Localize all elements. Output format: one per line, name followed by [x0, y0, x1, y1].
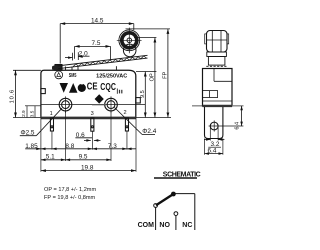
svg-text:3: 3 [91, 111, 94, 117]
schematic label NO [159, 222, 170, 229]
svg-text:3.5: 3.5 [29, 110, 34, 117]
OP text line [44, 187, 96, 193]
svg-text:FP: FP [162, 71, 168, 78]
marking 125/250VAC [96, 74, 127, 80]
lever pivot block [55, 65, 116, 71]
front view bottom edge (thick) [41, 117, 137, 120]
right view roller side ears [205, 34, 229, 44]
svg-text:COM: COM [138, 222, 155, 229]
svg-text:14.5: 14.5 [91, 17, 104, 24]
svg-text:6.4: 6.4 [235, 122, 241, 130]
schematic lever [156, 194, 173, 205]
leader Phi2.4 [115, 108, 157, 136]
front view body outline [41, 70, 136, 117]
pin label 3 [91, 111, 94, 117]
right view lever plate [207, 52, 227, 57]
right view roller block [207, 31, 228, 53]
schematic COM contact circle [154, 204, 158, 208]
svg-text:7.3: 7.3 [108, 143, 117, 150]
schematic COM wire [155, 207, 157, 230]
svg-text:7.5: 7.5 [92, 40, 101, 47]
right view body [203, 69, 233, 107]
FP reference line [126, 28, 171, 30]
svg-text:CQC: CQC [100, 82, 116, 93]
schematic NO contact circle [174, 212, 178, 216]
schematic NO wire [175, 216, 177, 231]
dimension FP vertical [162, 29, 169, 118]
dimension 10.6 [10, 70, 41, 117]
svg-text:2.9: 2.9 [21, 110, 26, 117]
right view bottom-left tick [192, 105, 202, 107]
dimension row 8.8 / 7.3 [52, 143, 136, 150]
leader Phi2.5 [20, 108, 62, 136]
right edge tab detail [136, 98, 141, 103]
small left dims 2.9 / 3.5 [21, 106, 41, 118]
dimension 6.4 bottom [205, 139, 223, 155]
lever serrations [73, 56, 147, 67]
svg-text:19.8: 19.8 [81, 164, 94, 171]
lever arm [53, 55, 148, 70]
dimension 19.8 [41, 118, 136, 173]
dimension 3.2 [204, 126, 224, 148]
dimension 6.4 right vertical [233, 106, 244, 130]
pin extension lines [52, 131, 127, 150]
logo CE [87, 81, 98, 92]
right view tab hole [209, 120, 244, 131]
svg-text:2.0: 2.0 [79, 50, 88, 57]
dimension 7.5 [75, 40, 111, 59]
OP reference line [134, 37, 156, 39]
dimension 9.5 vertical [140, 72, 147, 118]
svg-text:9.5: 9.5 [79, 153, 88, 160]
schematic label COM [138, 222, 155, 229]
svg-text:NO: NO [159, 222, 170, 229]
svg-text:CE: CE [87, 81, 98, 92]
pin label 1 [50, 111, 53, 117]
right view bottom edge thick [203, 105, 233, 107]
svg-text:8.8: 8.8 [65, 143, 74, 150]
logo diamond with text [92, 94, 106, 105]
left edge extension to rows [40, 118, 42, 172]
bottom edge extension line left [13, 117, 41, 119]
dimension row 5.1 / 9.5 [41, 153, 111, 161]
svg-text:5.1: 5.1 [46, 154, 55, 161]
svg-text:OP = 17,8 +/- 1,2mm: OP = 17,8 +/- 1,2mm [44, 187, 96, 193]
hole center extensions [66, 111, 112, 161]
FP text line [44, 195, 96, 201]
schematic NC wire [194, 194, 196, 230]
lever pivot circle at roller [123, 44, 136, 57]
svg-text:9.5: 9.5 [140, 90, 146, 98]
terminal pin 3 [91, 118, 94, 131]
svg-text:NC: NC [182, 222, 192, 229]
dimension 14.5 [60, 17, 134, 63]
svg-text:10.6: 10.6 [10, 89, 16, 103]
schematic label NC [182, 222, 192, 229]
right view lever boss [206, 57, 226, 67]
dimension 2.0 [65, 50, 90, 60]
top edge extension right [136, 71, 156, 73]
dimension OP vertical [149, 38, 156, 118]
svg-text:SM5: SM5 [69, 73, 77, 79]
terminal pin 1 [50, 118, 53, 131]
logo round mark [78, 83, 86, 92]
marking SM5 [69, 73, 77, 79]
schematic top wire [173, 193, 194, 195]
svg-text:125/250VAC: 125/250VAC [96, 74, 127, 80]
roller [117, 28, 142, 54]
marking circled triangle [55, 71, 63, 79]
schematic title [154, 172, 201, 179]
marking small UL mark [117, 89, 122, 94]
left edge notch [41, 89, 45, 94]
svg-text:OP: OP [149, 73, 155, 81]
svg-text:FP = 19,8 +/- 0,8mm: FP = 19,8 +/- 0,8mm [44, 195, 96, 201]
mounting hole right [105, 96, 118, 112]
logo VDE triangles [60, 83, 78, 93]
svg-text:6.4: 6.4 [208, 147, 217, 154]
svg-text:2: 2 [124, 110, 127, 116]
logo CQC [100, 82, 116, 93]
hole centerline [41, 104, 145, 106]
bottom edge extension line right [136, 117, 171, 119]
svg-text:1: 1 [50, 111, 53, 117]
dimension 0.6 [75, 132, 100, 142]
schematic lever contact dot [171, 192, 176, 197]
dimension 1.85 [25, 143, 52, 150]
mounting hole left [59, 96, 72, 112]
pin label 2 [124, 110, 127, 116]
right view mounting tab [205, 107, 223, 139]
terminal pin 2 [125, 118, 128, 131]
plunger [72, 66, 78, 70]
